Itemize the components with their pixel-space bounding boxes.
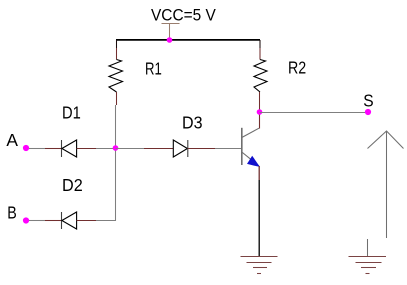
wire B to D2 [29, 220, 45, 222]
ground (emitter) [241, 257, 278, 274]
svg-text:D1: D1 [62, 103, 81, 123]
svg-text:S: S [363, 90, 373, 110]
wire [115, 105, 117, 148]
wire emitter pin [258, 166, 260, 180]
wire D2 to node P corner [77, 220, 96, 222]
wire [215, 148, 242, 150]
ground (right) stub [367, 239, 369, 256]
node VCC junction dot [167, 37, 173, 43]
output arrow probe [368, 131, 404, 238]
wire [96, 148, 116, 150]
svg-text:B: B [7, 203, 16, 223]
wire [144, 148, 173, 150]
transistor Q1 emitter arrow [248, 157, 259, 167]
VCC terminal symbol [162, 24, 180, 41]
svg-text:A: A [6, 130, 18, 150]
wire top rail [116, 39, 260, 41]
resistor R1 [109, 40, 123, 92]
wire [45, 148, 61, 150]
wire emitter down [258, 180, 260, 257]
node output S terminal dot [365, 109, 371, 115]
node collector junction dot [257, 109, 263, 115]
node P junction dot [113, 145, 119, 151]
svg-text:R2: R2 [288, 58, 306, 78]
transistor Q1 emitter diagonal [242, 152, 259, 166]
diode D2 [62, 212, 77, 229]
svg-text:D2: D2 [62, 175, 83, 195]
transistor Q1 collector diagonal [242, 128, 259, 137]
transistor Q1 base bar [241, 128, 243, 165]
wire collector stub [259, 112, 261, 129]
diode D1 [62, 140, 77, 157]
svg-text:VCC=5 V: VCC=5 V [151, 6, 216, 25]
diode D3 [173, 140, 188, 157]
svg-text:R1: R1 [145, 58, 162, 78]
wire R1 bottom to node P [116, 92, 118, 105]
ground (right) [349, 257, 387, 274]
wire [45, 220, 61, 222]
wire [96, 148, 116, 221]
wire D3 to base [188, 148, 215, 150]
wire A to D1 [29, 148, 45, 150]
wire collector to S [260, 112, 366, 114]
svg-text:D3: D3 [182, 112, 203, 132]
node input A terminal dot [23, 145, 29, 151]
resistor R2 [254, 40, 267, 112]
wire D1 to node P [77, 148, 96, 150]
wire node P to D3 [116, 148, 145, 150]
node input B terminal dot [23, 217, 29, 223]
